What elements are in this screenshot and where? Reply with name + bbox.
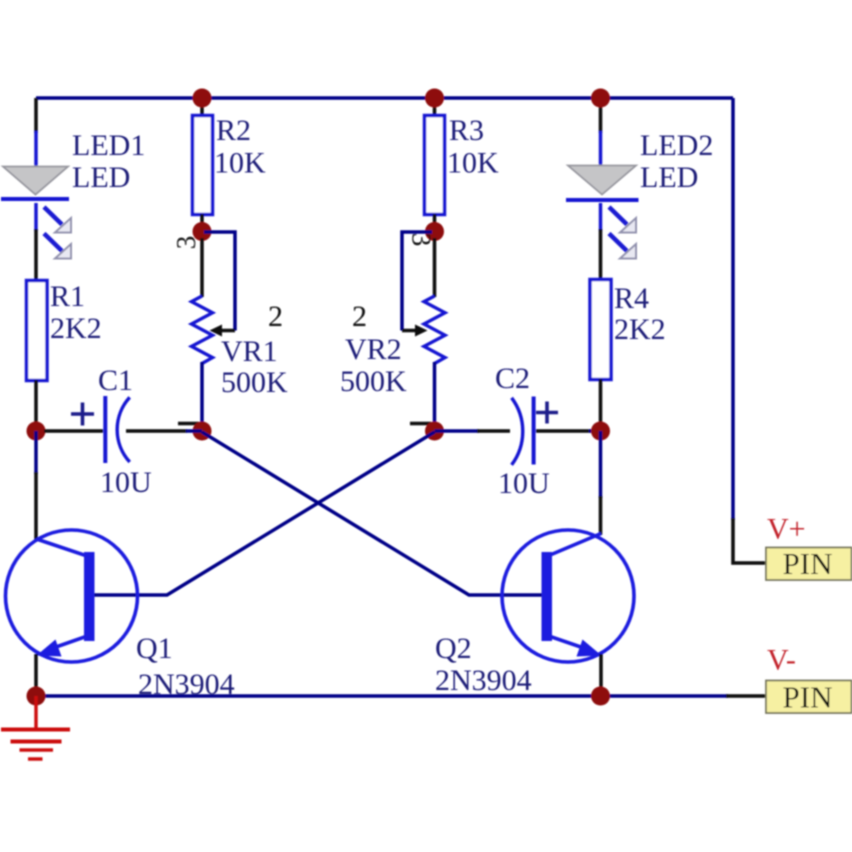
LED2 glow arrow 1 (609, 207, 636, 233)
capacitor C2 right wire black (536, 429, 591, 433)
capacitor C1 straight plate (103, 396, 107, 463)
svg-text:Q1: Q1 (136, 632, 173, 665)
svg-text:V-: V- (767, 644, 796, 677)
svg-text:2N3904: 2N3904 (435, 664, 532, 697)
LED1 cathode bar (1, 197, 69, 201)
wire right rail black elbow to V+ pin (733, 518, 766, 563)
LED2 glow arrow 2 (609, 234, 636, 259)
node junction R4/C2/Q2 collector (591, 422, 610, 441)
svg-text:LED2: LED2 (640, 129, 713, 162)
wire R4 top pin black (599, 229, 603, 280)
capacitor C2 straight plate (532, 397, 536, 465)
wire Q2 emitter pin black (599, 654, 603, 696)
wire R1 top pin black (34, 229, 38, 281)
ground symbol (1, 696, 70, 759)
node junction Q2 emitter / bottom rail (591, 687, 610, 706)
V- PIN terminal box (766, 681, 852, 714)
wire LED2 anode blue (599, 131, 603, 166)
wire cross VR2 junction to Q1 base (95, 432, 435, 595)
wire VR2 pin 3 black (433, 238, 437, 297)
LED1 glow arrow 1 (44, 207, 71, 233)
capacitor C1 right wire black (126, 429, 187, 433)
transistor Q1 (6, 530, 138, 662)
svg-text:10K: 10K (214, 147, 266, 180)
wire LED2 cathode to R4 (599, 203, 603, 231)
svg-text:2: 2 (352, 300, 367, 333)
svg-text:R4: R4 (614, 282, 649, 315)
potentiometer VR2 zigzag (424, 296, 445, 364)
wire bottom rail V- (36, 694, 728, 698)
svg-text:LED1: LED1 (72, 129, 145, 162)
capacitor C2 left wire black (477, 429, 510, 433)
svg-text:LED: LED (72, 161, 130, 194)
svg-text:2K2: 2K2 (614, 313, 666, 346)
wire junction down to Q1 collector (34, 431, 38, 474)
wire Q1 emitter pin black (34, 654, 38, 696)
svg-text:2K2: 2K2 (50, 312, 102, 345)
svg-text:PIN: PIN (783, 680, 833, 715)
VR1 pin number 1 dash (178, 422, 199, 426)
wire LED1 anode blue (34, 131, 38, 167)
wire R4 bottom pin black (599, 379, 603, 432)
wire LED1 cathode to R1 (34, 203, 38, 231)
wire C2 to R4 junction navy (589, 429, 601, 433)
LED1 glow arrow 2 (44, 234, 71, 259)
capacitor C2 curved plate (512, 398, 523, 465)
VR1 wiper arrow black (210, 325, 236, 337)
wire cross VR1 junction to Q2 base (202, 432, 542, 595)
LED1 diode triangle (3, 167, 68, 195)
svg-text:10K: 10K (447, 147, 499, 180)
svg-text:10U: 10U (100, 466, 152, 499)
wire R2 bottom pin black (200, 214, 204, 228)
capacitor C1 plus sign (71, 403, 94, 426)
svg-text:3: 3 (171, 236, 201, 250)
svg-text:VR1: VR1 (221, 335, 278, 368)
svg-text:R3: R3 (449, 114, 484, 147)
wire LED2 top pin black (599, 98, 603, 133)
svg-text:3: 3 (407, 233, 437, 247)
VR2 wiper arrow black (402, 325, 428, 337)
node junction R2/VR1 (193, 222, 212, 241)
svg-text:2: 2 (268, 300, 283, 333)
svg-text:R2: R2 (216, 114, 251, 147)
capacitor C1 left wire black (44, 429, 103, 433)
resistor R4 body (590, 280, 611, 380)
wire Q1 collector pin black (34, 472, 38, 540)
wire bottom rail black segment to V- pin (726, 694, 766, 698)
resistor R2 body (193, 116, 213, 215)
wire VR1 pin 3 black (200, 238, 204, 297)
node junction top rail R2 (193, 89, 212, 108)
wire VR2 bottom to junction (433, 362, 437, 432)
potentiometer VR1 zigzag (192, 296, 213, 364)
node junction top rail LED2 (591, 89, 610, 108)
wire R3 bottom pin black (433, 214, 437, 228)
node junction top rail R3 (425, 89, 444, 108)
svg-text:C2: C2 (495, 362, 530, 395)
wire right rail down to V+ pin (731, 98, 735, 520)
wire top rail V+ (36, 96, 733, 100)
wire LED1 top pin black (34, 98, 38, 133)
LED2 diode triangle (568, 166, 636, 195)
resistor R2 top pin black (200, 98, 204, 116)
wire VR1 top elbow (204, 232, 235, 331)
svg-text:PIN: PIN (783, 546, 833, 581)
resistor R3 top pin black (433, 98, 437, 116)
svg-text:C1: C1 (98, 364, 133, 397)
wire junction down navy (599, 431, 603, 498)
V+ PIN terminal box (766, 548, 852, 581)
node junction R3/VR2 (425, 222, 444, 241)
svg-text:R1: R1 (50, 280, 85, 313)
wire VR2 junction to C2 navy (435, 429, 480, 433)
resistor R1 body (27, 281, 48, 381)
resistor R3 body (425, 116, 445, 215)
capacitor C1 curved plate (117, 397, 130, 462)
wire VR1 bottom to junction (200, 362, 204, 432)
wire C1 to VR1 junction navy (186, 429, 202, 433)
node junction VR2/C2/cross (425, 422, 444, 441)
svg-text:V+: V+ (767, 513, 806, 546)
svg-text:500K: 500K (221, 366, 288, 399)
node junction R1/C1/Q1 collector (27, 422, 46, 441)
node junction Q1 emitter / ground (27, 687, 46, 706)
svg-text:500K: 500K (340, 365, 407, 398)
svg-text:10U: 10U (498, 467, 550, 500)
transistor Q2 (502, 530, 634, 662)
svg-text:2N3904: 2N3904 (138, 668, 235, 701)
VR2 pin number 1 dash (410, 422, 431, 426)
capacitor C2 plus sign (536, 402, 558, 424)
svg-text:Q2: Q2 (435, 632, 472, 665)
LED2 cathode bar (566, 198, 639, 202)
node junction VR1/C1/cross (193, 422, 212, 441)
svg-text:LED: LED (640, 161, 698, 194)
svg-text:VR2: VR2 (345, 333, 402, 366)
wire R1 bottom pin black (34, 380, 38, 432)
wire VR2 top elbow (402, 232, 432, 331)
wire Q2 collector pin black (599, 496, 603, 535)
